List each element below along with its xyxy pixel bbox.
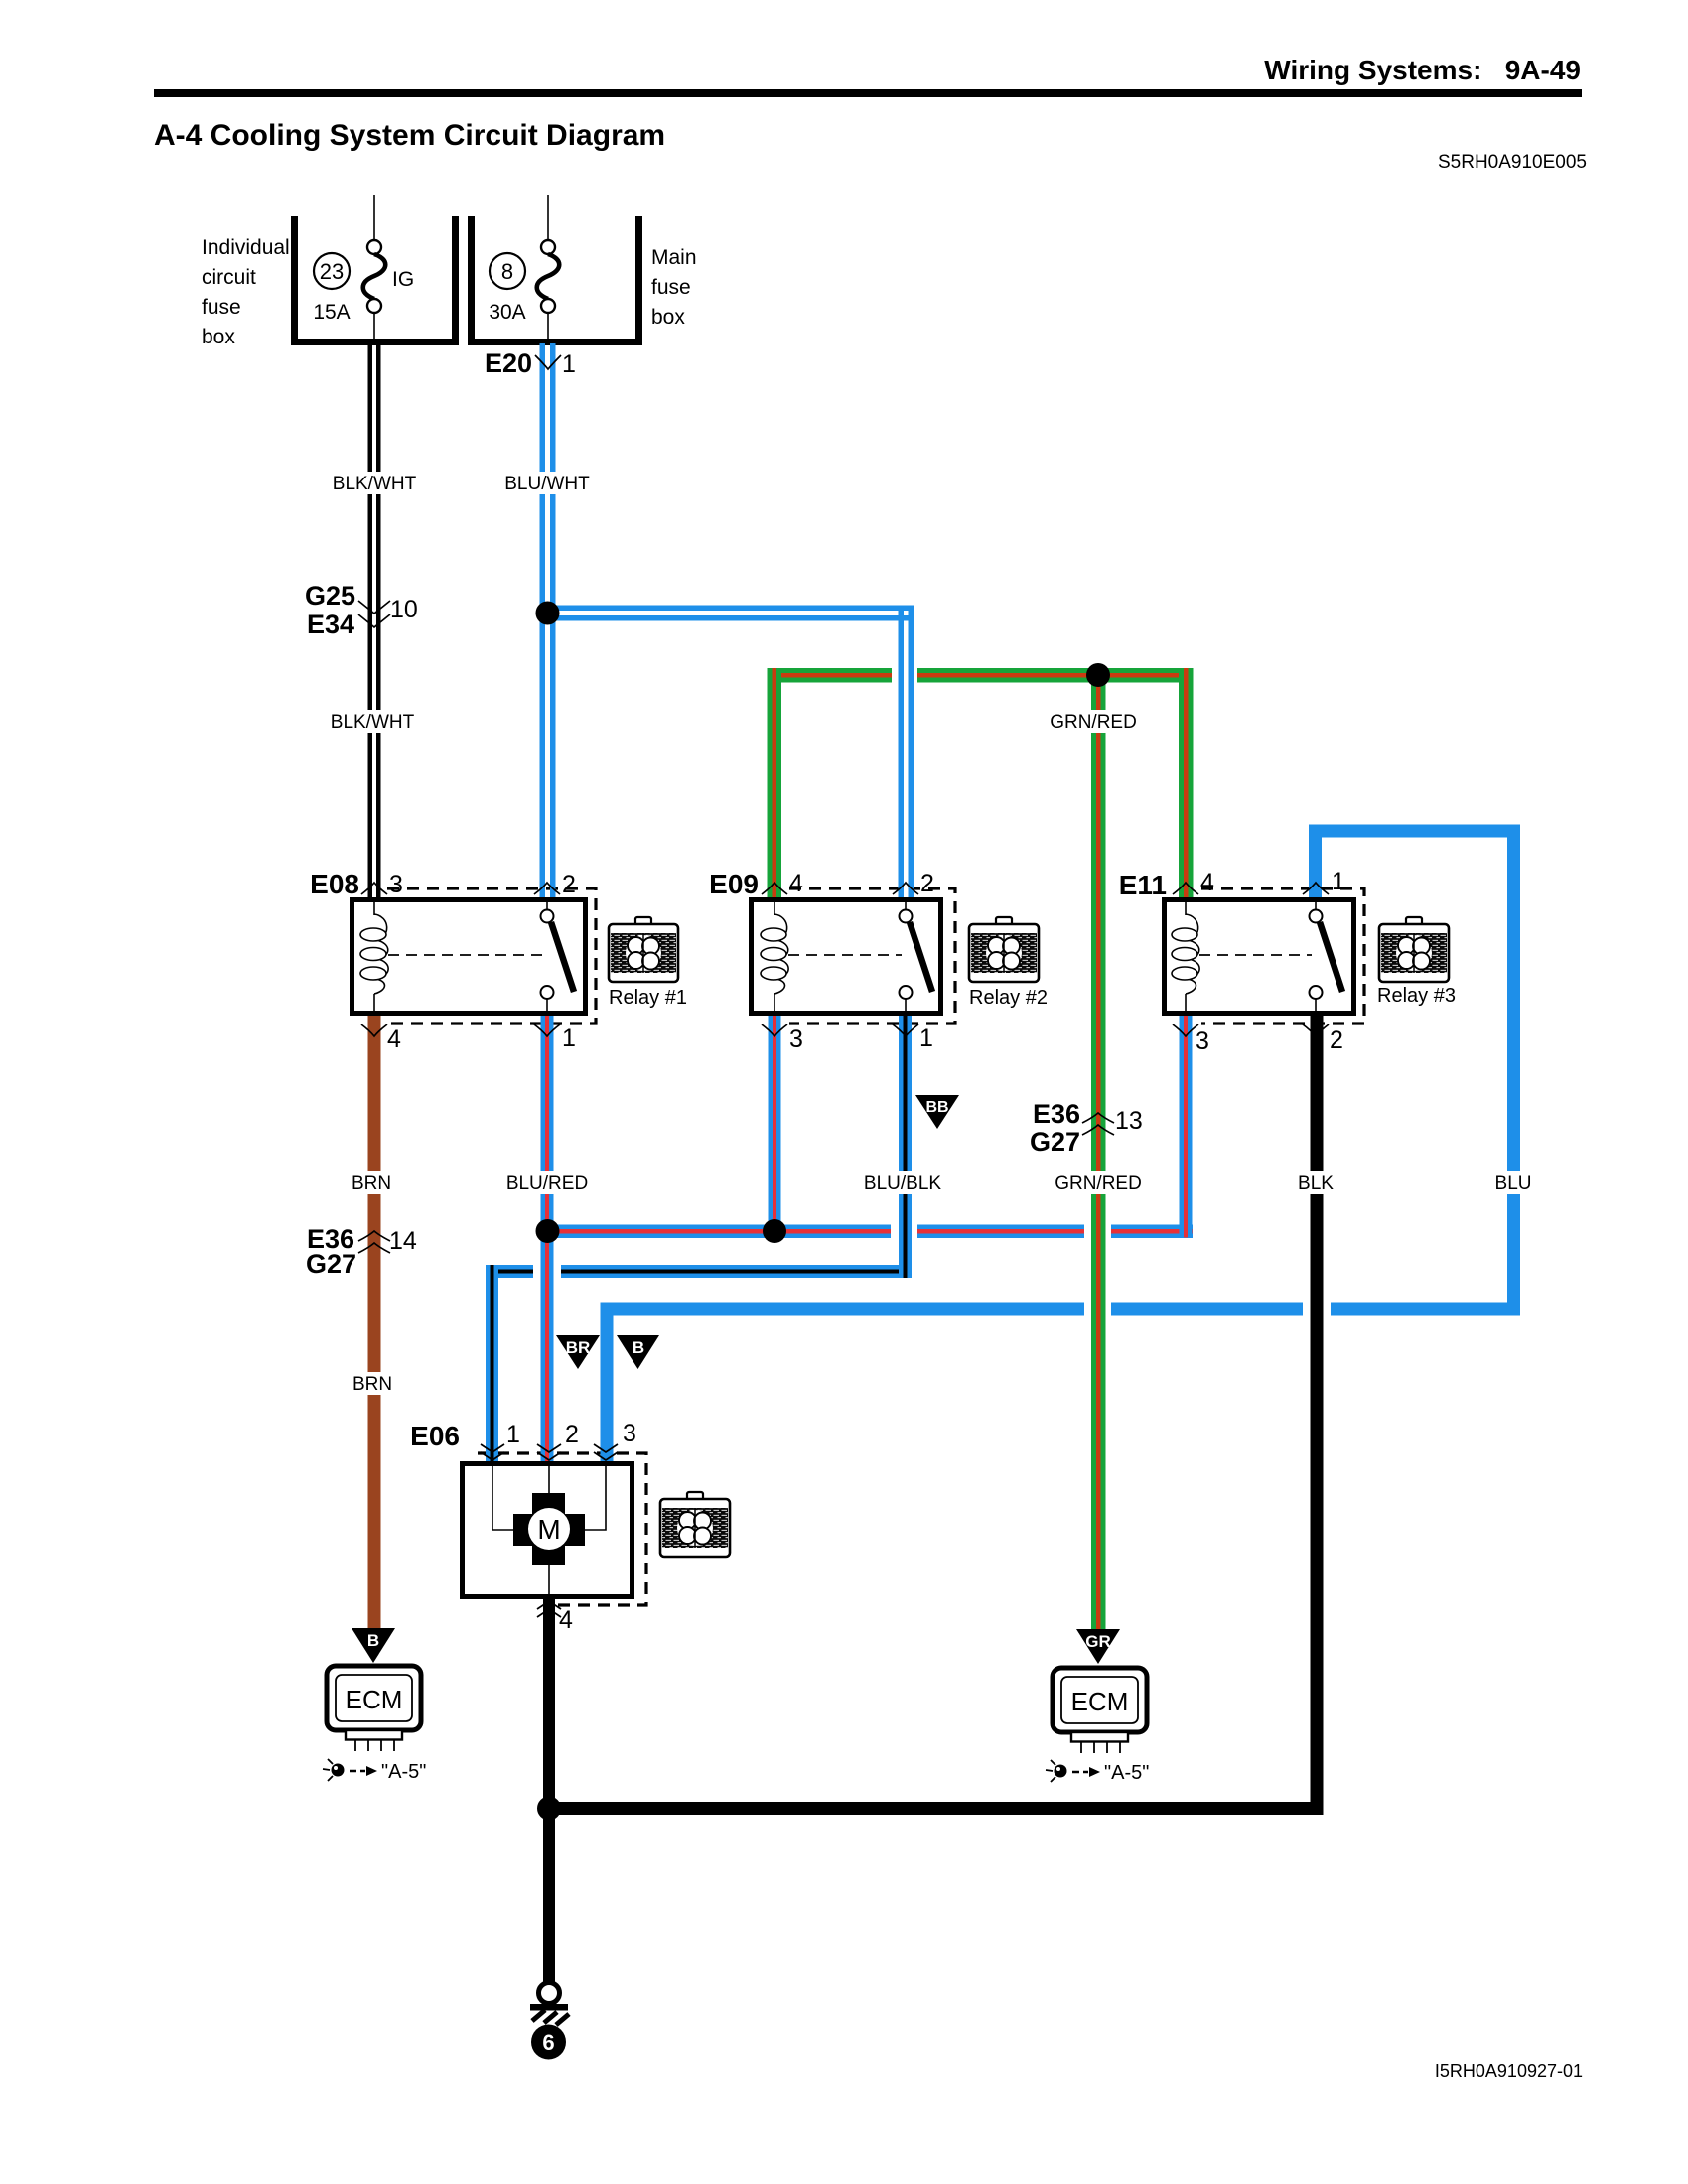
junction dot BLK ground bus bbox=[537, 1797, 561, 1821]
radiator fan icon relay 1 bbox=[609, 917, 678, 982]
ECM left box bbox=[327, 1666, 421, 1751]
relay E11 pin 2 bbox=[1303, 1024, 1329, 1036]
svg-text:BRN: BRN bbox=[352, 1173, 391, 1194]
wire BLU/BLK vertical to E06 pin 1 bbox=[486, 1265, 498, 1465]
motor M symbol bbox=[532, 1493, 565, 1565]
svg-text:ECM: ECM bbox=[1071, 1687, 1129, 1716]
svg-text:ECM: ECM bbox=[346, 1685, 403, 1714]
wire BLU thick vertical to E06 pin 3 bbox=[601, 1303, 614, 1466]
wire BLU thick horizontal y1319 bbox=[601, 1300, 1521, 1318]
wire BRN vertical from E08 pin 4 bbox=[368, 1010, 381, 1629]
relay E11 pin 4 bbox=[1173, 883, 1198, 894]
fuse 8 circle label bbox=[490, 253, 525, 289]
off-page triangle B to ECM left bbox=[352, 1628, 395, 1663]
svg-text:E08: E08 bbox=[310, 869, 359, 899]
wire BLK ground horizontal y1821 bbox=[548, 1802, 1324, 1815]
relay E11 pin 3 bbox=[1173, 1024, 1198, 1036]
svg-text:"A-5": "A-5" bbox=[381, 1761, 426, 1783]
wire BLU/RED vertical from E08 pin 1 to E06 pin 2 bbox=[541, 1010, 554, 1465]
svg-text:4: 4 bbox=[789, 870, 803, 897]
relay switch contact bbox=[1315, 899, 1317, 910]
svg-text:1: 1 bbox=[562, 350, 576, 378]
ground symbol bbox=[530, 1983, 569, 2026]
radiator fan icon E06 bbox=[660, 1492, 730, 1557]
wire GRN/RED vertical to ECM bbox=[1091, 668, 1106, 1629]
relay E08 pin 1 bbox=[534, 1024, 560, 1036]
wire label GRN/RED lower bbox=[1054, 1171, 1143, 1194]
svg-text:2: 2 bbox=[1330, 1026, 1343, 1054]
off-page triangle BB bbox=[915, 1095, 959, 1129]
svg-text:IG: IG bbox=[392, 268, 414, 291]
fuse 23 circle label bbox=[314, 253, 350, 289]
svg-text:3: 3 bbox=[789, 1025, 803, 1053]
relay E08 pin 3 bbox=[361, 883, 387, 894]
relay E08 box bbox=[352, 899, 586, 1014]
ECM right box bbox=[1053, 1668, 1147, 1753]
connector E20 chevron bbox=[535, 355, 561, 369]
relay mechanical link dashed bbox=[788, 954, 902, 956]
svg-text:M: M bbox=[537, 1514, 560, 1545]
svg-text:Relay #3: Relay #3 bbox=[1377, 985, 1456, 1007]
connector E36/G27 right chevrons bbox=[1082, 1113, 1114, 1123]
wire BLU/WHT horizontal branch y617 bbox=[547, 606, 914, 621]
main fuse box outline bbox=[468, 216, 475, 345]
wire BLU/BLK vertical from E09 pin 1 bbox=[899, 1010, 912, 1278]
svg-text:BLU: BLU bbox=[1495, 1173, 1532, 1194]
wire label BLK/WHT lower bbox=[328, 710, 417, 733]
relay E09 pin 2 bbox=[893, 883, 918, 894]
svg-text:S5RH0A910E005: S5RH0A910E005 bbox=[1438, 152, 1587, 173]
wire BLU thick vertical from E11 pin 1 bbox=[1309, 825, 1322, 900]
svg-text:BLK: BLK bbox=[1298, 1173, 1334, 1194]
off-page triangle GR to ECM right bbox=[1076, 1629, 1120, 1664]
wire label BLU/BLK bbox=[858, 1171, 947, 1194]
svg-text:14: 14 bbox=[389, 1227, 417, 1255]
svg-text:E20: E20 bbox=[485, 348, 532, 378]
motor E06 pin 2 bbox=[537, 1444, 561, 1452]
svg-text:circuit: circuit bbox=[202, 266, 256, 289]
off-page triangle BR bbox=[556, 1335, 600, 1369]
junction dot BLU/RED at E08 leg bbox=[536, 1219, 560, 1243]
svg-text:15A: 15A bbox=[313, 301, 350, 324]
svg-text:4: 4 bbox=[559, 1606, 573, 1634]
relay E09 box bbox=[752, 899, 941, 1014]
svg-text:E11: E11 bbox=[1119, 870, 1167, 900]
svg-text:2: 2 bbox=[562, 871, 576, 898]
connector E36/G27 left chevrons bbox=[358, 1231, 390, 1241]
wire GRN/RED horizontal bus y680 bbox=[768, 666, 1194, 685]
svg-text:BLK/WHT: BLK/WHT bbox=[331, 712, 415, 733]
svg-text:4: 4 bbox=[1200, 869, 1214, 896]
svg-text:1: 1 bbox=[919, 1024, 933, 1052]
svg-text:G27: G27 bbox=[1030, 1127, 1080, 1157]
wire BLK vertical from E11 pin 2 bbox=[1311, 1010, 1324, 1815]
svg-text:E06: E06 bbox=[410, 1421, 460, 1451]
svg-text:G25: G25 bbox=[305, 581, 355, 611]
wire BLK/WHT vertical from fuse box bbox=[368, 343, 381, 899]
wire label BLK bbox=[1292, 1171, 1339, 1194]
relay coil bbox=[373, 899, 375, 915]
svg-text:G27: G27 bbox=[306, 1249, 356, 1279]
svg-text:fuse: fuse bbox=[202, 296, 241, 319]
svg-text:23: 23 bbox=[320, 259, 344, 284]
svg-text:B: B bbox=[633, 1338, 644, 1357]
relay E09 pin 1 bbox=[893, 1024, 918, 1036]
svg-text:BB: BB bbox=[925, 1099, 948, 1116]
svg-text:BRN: BRN bbox=[352, 1374, 392, 1395]
svg-text:Main: Main bbox=[651, 246, 697, 269]
connector E09 dashed outline bbox=[789, 888, 955, 1024]
ECM right eye reference A-5 bbox=[1046, 1760, 1149, 1784]
svg-text:E36: E36 bbox=[1033, 1099, 1080, 1129]
svg-text:2: 2 bbox=[565, 1421, 579, 1448]
svg-text:BLU/WHT: BLU/WHT bbox=[504, 474, 590, 494]
svg-text:box: box bbox=[651, 306, 685, 329]
svg-text:10: 10 bbox=[390, 596, 418, 623]
svg-text:3: 3 bbox=[389, 871, 403, 898]
svg-text:BLK/WHT: BLK/WHT bbox=[333, 474, 417, 494]
relay switch contact bbox=[905, 899, 907, 910]
svg-text:1: 1 bbox=[506, 1421, 520, 1448]
svg-text:BLU/RED: BLU/RED bbox=[506, 1173, 588, 1194]
svg-text:BLU/BLK: BLU/BLK bbox=[864, 1173, 941, 1194]
connector E06 dashed outline bbox=[478, 1453, 646, 1605]
relay coil bbox=[774, 899, 775, 915]
svg-text:Individual: Individual bbox=[202, 236, 290, 259]
wire label BRN lower bbox=[351, 1372, 394, 1395]
svg-text:6: 6 bbox=[542, 2030, 554, 2055]
relay E11 pin 1 bbox=[1303, 883, 1329, 894]
svg-text:1: 1 bbox=[562, 1024, 576, 1052]
motor E06 pin 4 bbox=[537, 1601, 561, 1609]
wire BLU/RED horizontal bus y1240 bbox=[547, 1222, 1193, 1240]
motor E06 pin 1 bbox=[481, 1444, 504, 1452]
relay E08 pin 4 bbox=[361, 1024, 387, 1036]
off-page triangle B near E06 bbox=[617, 1335, 659, 1369]
relay E09 pin 4 bbox=[762, 883, 787, 894]
svg-text:13: 13 bbox=[1115, 1107, 1143, 1135]
svg-text:GRN/RED: GRN/RED bbox=[1055, 1173, 1142, 1194]
svg-text:Relay #1: Relay #1 bbox=[609, 987, 687, 1009]
svg-text:I5RH0A910927-01: I5RH0A910927-01 bbox=[1435, 2061, 1583, 2081]
individual circuit fuse box outline bbox=[291, 216, 298, 345]
svg-text:B: B bbox=[367, 1631, 379, 1650]
wire label GRN/RED upper bbox=[1049, 710, 1138, 733]
connector E11 dashed outline bbox=[1201, 888, 1364, 1024]
wire BLK vertical from E06 pin 4 to ground bbox=[543, 1596, 555, 1985]
wire BLU/RED vertical from E11 pin 3 bbox=[1180, 1010, 1193, 1238]
svg-text:box: box bbox=[202, 326, 235, 348]
svg-text:"A-5": "A-5" bbox=[1104, 1762, 1149, 1784]
svg-text:8: 8 bbox=[501, 259, 513, 284]
svg-text:GR: GR bbox=[1085, 1632, 1111, 1651]
relay mechanical link dashed bbox=[388, 954, 543, 956]
svg-text:30A: 30A bbox=[489, 301, 525, 324]
wire label BLU bbox=[1489, 1171, 1537, 1194]
svg-text:1: 1 bbox=[1332, 868, 1345, 895]
svg-text:GRN/RED: GRN/RED bbox=[1050, 712, 1137, 733]
relay E08 pin 2 bbox=[534, 883, 560, 894]
fuse 8 symbol bbox=[547, 195, 549, 241]
svg-text:Relay #2: Relay #2 bbox=[969, 987, 1048, 1009]
wire GRN/RED vertical to E11 pin 4 bbox=[1179, 668, 1194, 899]
svg-text:E09: E09 bbox=[709, 869, 759, 899]
relay switch contact bbox=[546, 899, 548, 910]
relay E09 pin 3 bbox=[762, 1024, 787, 1036]
junction dot BLU/WHT branch bbox=[536, 602, 560, 625]
ECM left eye reference A-5 bbox=[323, 1759, 426, 1783]
relay coil bbox=[1185, 899, 1187, 915]
svg-text:3: 3 bbox=[623, 1420, 636, 1447]
motor E06 pin 3 bbox=[594, 1444, 618, 1452]
svg-text:E34: E34 bbox=[307, 610, 354, 639]
svg-text:BR: BR bbox=[566, 1338, 591, 1357]
fuse 23 symbol bbox=[373, 195, 375, 241]
svg-text:2: 2 bbox=[920, 870, 934, 897]
relay mechanical link dashed bbox=[1199, 954, 1312, 956]
svg-text:3: 3 bbox=[1196, 1027, 1209, 1055]
wire BLU/RED vertical from E09 pin 3 bbox=[769, 1010, 781, 1238]
wire label BLU/RED bbox=[502, 1171, 592, 1194]
svg-text:fuse: fuse bbox=[651, 276, 691, 299]
motor assembly E06 box bbox=[463, 1463, 633, 1597]
junction dot GRN/RED branch bbox=[1086, 663, 1110, 687]
wire label BLU/WHT bbox=[502, 472, 592, 494]
wire label BRN upper bbox=[350, 1171, 393, 1194]
svg-text:A-4 Cooling System Circuit Dia: A-4 Cooling System Circuit Diagram bbox=[154, 119, 665, 152]
wire BLU/WHT vertical from E20 bbox=[540, 343, 556, 899]
radiator fan icon relay 3 bbox=[1379, 917, 1449, 982]
connector G25/E34 chevrons bbox=[358, 601, 390, 614]
svg-text:Wiring Systems: 9A-49: Wiring Systems: 9A-49 bbox=[1264, 55, 1581, 85]
relay E11 box bbox=[1165, 899, 1354, 1014]
header rule bbox=[154, 89, 1582, 97]
wire label BLK/WHT upper bbox=[330, 472, 419, 494]
ground id circle 6 bbox=[531, 2025, 566, 2060]
connector E08 dashed outline bbox=[387, 888, 596, 1024]
wire BLU/WHT vertical to E09 pin 2 bbox=[899, 606, 914, 900]
motor internal leads bbox=[492, 1463, 513, 1530]
junction dot BLU/RED at E09 leg bbox=[763, 1219, 786, 1243]
wire BLU thick horizontal top y837 bbox=[1309, 825, 1520, 838]
svg-text:4: 4 bbox=[387, 1025, 401, 1053]
wire GRN/RED vertical to E09 pin 4 bbox=[768, 668, 782, 899]
radiator fan icon relay 2 bbox=[969, 917, 1039, 982]
wire BLU/BLK horizontal segment y1281 bbox=[486, 1263, 912, 1282]
wire BLU thick vertical right side bbox=[1507, 825, 1520, 1316]
